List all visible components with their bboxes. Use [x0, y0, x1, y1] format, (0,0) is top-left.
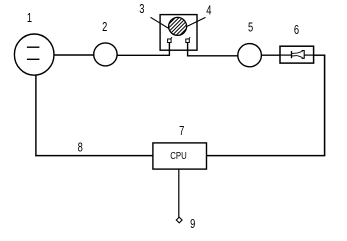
right port drop wire: [187, 43, 189, 57]
right port square: [186, 39, 190, 43]
component 1 lower bar: [27, 58, 40, 60]
svg-text:1: 1: [27, 11, 32, 25]
right port tick: [189, 37, 190, 39]
leader line 3: [151, 17, 174, 31]
CPU box U7: [153, 143, 207, 169]
left port tick: [171, 37, 172, 39]
svg-text:9: 9: [190, 217, 195, 231]
valve symbol lead-in: [280, 54, 292, 56]
valve symbol bell: [297, 51, 302, 57]
valve symbol lead-out: [304, 54, 313, 56]
valve symbol neck bottom: [292, 55, 297, 57]
svg-text:8: 8: [78, 141, 83, 155]
wire circle5 to box6: [261, 54, 280, 56]
leader line 4: [185, 17, 206, 27]
hatch lines: [164, 13, 191, 40]
left port square: [168, 39, 172, 43]
svg-text:CPU: CPU: [170, 150, 186, 161]
wire right corner to CPU: [207, 155, 326, 157]
right vertical wire: [324, 55, 326, 155]
CPU output wire down: [178, 169, 180, 217]
hatched circle (fan/motor): [169, 17, 187, 35]
component 1 (compressor circle): [14, 34, 54, 75]
svg-text:7: 7: [179, 125, 184, 139]
wire circle2 to box3 left port: [117, 54, 170, 56]
bottom wire 8 to CPU: [35, 155, 153, 157]
terminal diamond 9: [176, 217, 182, 223]
valve symbol neck top: [292, 52, 297, 54]
valve symbol bar: [291, 51, 293, 58]
svg-text:4: 4: [206, 4, 211, 18]
box U3 (component 3/4 housing): [160, 15, 197, 51]
wire circle1 to circle2: [54, 54, 94, 56]
valve symbol bracket: [302, 51, 305, 59]
box component 6 (valve housing): [280, 46, 314, 63]
wire box3 right port to circle5: [187, 55, 238, 57]
wire box6 to right corner: [314, 54, 326, 56]
component 5 (small circle): [238, 44, 262, 67]
svg-text:3: 3: [139, 3, 144, 17]
left port drop wire: [168, 43, 170, 56]
component 2 (small circle): [94, 43, 117, 66]
svg-text:5: 5: [248, 21, 253, 35]
svg-text:2: 2: [102, 21, 107, 35]
component 1 upper bar: [27, 46, 40, 48]
svg-text:6: 6: [294, 24, 299, 38]
left vertical wire from circle1: [35, 75, 37, 156]
